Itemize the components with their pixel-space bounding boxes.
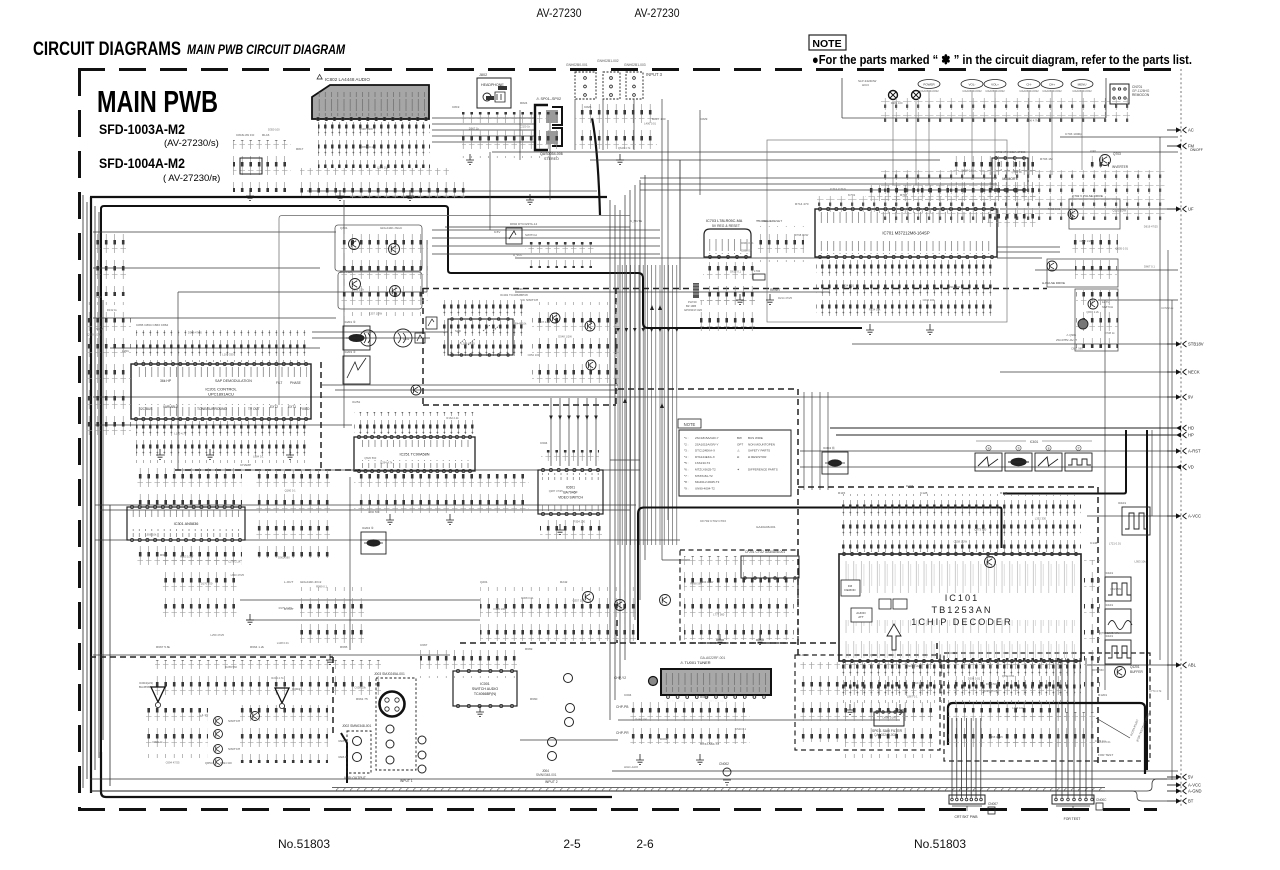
- svg-text:R1201: R1201: [1098, 693, 1107, 697]
- small signal box IC204 pin5: [361, 526, 386, 554]
- svg-text:Q703: Q703: [1113, 152, 1121, 156]
- svg-text:Q601: Q601: [986, 555, 994, 559]
- tuner below parts: [630, 702, 750, 744]
- ground: [556, 524, 564, 534]
- svg-text:D818 0.01: D818 0.01: [962, 169, 975, 173]
- wire IC701 to IC101 bus verticals: [616, 265, 678, 545]
- svg-text:R979 560: R979 560: [1092, 668, 1104, 672]
- ground: [866, 324, 874, 334]
- svg-text:C623 560: C623 560: [1110, 587, 1122, 591]
- svg-text:RL16: RL16: [262, 133, 270, 137]
- svg-text:S-IF: S-IF: [96, 295, 102, 299]
- mid left parts column: [255, 470, 331, 558]
- sel wire drops into IC601: [549, 398, 598, 466]
- svg-text:C667: C667: [420, 643, 428, 647]
- svg-text:A_MUTE: A_MUTE: [630, 219, 642, 223]
- svg-text:L439 10k: L439 10k: [1012, 706, 1024, 710]
- svg-text:GA-A022RF-001: GA-A022RF-001: [700, 656, 725, 660]
- buffer transistor Q302: [350, 279, 361, 290]
- ground: [446, 514, 454, 524]
- svg-text:Q011: Q011: [870, 653, 878, 657]
- svg-text:*7 :: *7 :: [684, 474, 689, 478]
- input1 jacks J011: [386, 725, 426, 783]
- ground: [466, 154, 474, 164]
- section bold dashed video boundary: [423, 288, 1047, 405]
- wire thick top center drop: [592, 118, 600, 215]
- IC101 internal hollow arrow: [887, 624, 901, 650]
- svg-text:L953 10k: L953 10k: [1135, 559, 1147, 563]
- pulse drive parts upper: [1070, 230, 1118, 256]
- svg-text:R553 1/2W: R553 1/2W: [180, 555, 194, 559]
- amp transistor Q202: [615, 600, 626, 611]
- svg-text:C128: C128: [920, 491, 928, 495]
- svg-text:R798 1/2W: R798 1/2W: [795, 233, 809, 237]
- svg-text:ABL: ABL: [1188, 663, 1197, 668]
- ground: [286, 449, 294, 459]
- svg-text:Q649 4.7k: Q649 4.7k: [618, 146, 631, 150]
- svg-text:D901 2.2k: D901 2.2k: [907, 664, 920, 668]
- regulator output capacitors: [700, 300, 756, 334]
- audio power IC IC802 LA4448: [312, 85, 429, 121]
- waveform box IC601 pin11: [1035, 453, 1062, 471]
- svg-text:BT: BT: [1188, 799, 1194, 804]
- svg-text:C004: C004: [624, 693, 632, 697]
- svg-text:VOL-: VOL-: [968, 83, 975, 87]
- svg-text:D308 0.01: D308 0.01: [521, 596, 534, 600]
- section dashed box bottom audio boundary: [90, 620, 937, 735]
- svg-text:R669: R669: [525, 647, 533, 651]
- svg-text:L443 4.7k: L443 4.7k: [1107, 631, 1119, 635]
- svg-text:C862 1/2W: C862 1/2W: [1080, 239, 1094, 243]
- svg-text:IC203 ③: IC203 ③: [344, 350, 356, 354]
- tuner IF input parts: [85, 302, 131, 438]
- svg-text:BUFFER: BUFFER: [340, 270, 353, 274]
- svg-text:C703 1000p: C703 1000p: [1065, 132, 1082, 136]
- svg-text:Q201: Q201: [480, 580, 488, 584]
- svg-text:⚠: ⚠: [737, 449, 740, 453]
- svg-text:DTC124EKA-X: DTC124EKA-X: [695, 449, 715, 453]
- svg-text:L400 0.01: L400 0.01: [644, 122, 656, 126]
- waveform box IC601 pin9: [1005, 453, 1032, 471]
- svg-text:IC004⁄: IC004⁄: [292, 687, 301, 691]
- svg-text:IC304 ⑭: IC304 ⑭: [823, 445, 835, 450]
- svg-text:C919 0.1: C919 0.1: [912, 681, 923, 685]
- svg-text:A_VCC: A_VCC: [513, 253, 522, 257]
- svg-text:UPC1891ACU: UPC1891ACU: [208, 392, 234, 397]
- svg-text:⑰: ⑰: [1077, 446, 1080, 450]
- headphone circuit parts: [462, 112, 558, 158]
- NOTE box: [809, 35, 846, 50]
- inductor L702: [753, 269, 765, 280]
- parts below IC601: [540, 516, 602, 542]
- svg-text:R665: R665: [340, 645, 348, 649]
- svg-text:C107 4.7k: C107 4.7k: [538, 320, 551, 324]
- ground: [716, 634, 724, 644]
- svg-text:VIDEO SWITCH: VIDEO SWITCH: [558, 496, 583, 500]
- section box H pulse drive: [1047, 259, 1118, 287]
- svg-text:Q458 47/25: Q458 47/25: [989, 735, 1004, 739]
- bundle up arrows near regulator: [650, 305, 662, 310]
- svg-text:Ω RESISTOR: Ω RESISTOR: [748, 455, 767, 459]
- svg-text:Q773 330: Q773 330: [974, 528, 986, 532]
- svg-text:D145 10k: D145 10k: [494, 607, 506, 611]
- GDL cluster parts: [300, 587, 366, 643]
- svg-text:CRT SKT PWB: CRT SKT PWB: [955, 815, 979, 819]
- microcomputer section outline: [767, 140, 1007, 322]
- svg-text:L702: L702: [754, 269, 761, 273]
- svg-text:IC401 TC4052BP/W: IC401 TC4052BP/W: [500, 293, 528, 297]
- svg-text:VARI OUTPUT: VARI OUTPUT: [344, 776, 366, 780]
- buffer transistor Q1201: [1115, 667, 1126, 678]
- remocon connector CN701: [1110, 84, 1150, 104]
- svg-text:D846 1k: D846 1k: [153, 740, 164, 744]
- svg-text:TB1253AN: TB1253AN: [932, 605, 993, 615]
- svg-text:POWER: POWER: [923, 83, 935, 87]
- ground: [526, 194, 534, 204]
- svg-text:R242: R242: [560, 580, 568, 584]
- svg-text:L352 330: L352 330: [1035, 517, 1047, 521]
- legend note box: [678, 419, 791, 496]
- regulator caps C716-C719: [703, 262, 755, 310]
- svg-text:D104: D104: [906, 484, 914, 488]
- svg-text:HP: HP: [1188, 433, 1194, 438]
- ground: [246, 190, 254, 200]
- svg-text:R663: R663: [160, 553, 168, 557]
- video output jacks J002: [338, 724, 371, 780]
- svg-text:⑯: ⑯: [1047, 446, 1050, 450]
- switch transistor Q901: [1078, 319, 1088, 329]
- buffer cluster left parts: [340, 234, 428, 316]
- svg-text:CN007: CN007: [988, 802, 998, 806]
- svg-text:L956 10k: L956 10k: [145, 533, 157, 537]
- jack CN002 ground lug: [719, 762, 731, 785]
- svg-text:Y/C SWITCH: Y/C SWITCH: [520, 298, 538, 302]
- svg-text:NOTE: NOTE: [812, 38, 841, 50]
- svg-text:Q357 10k: Q357 10k: [573, 599, 585, 603]
- svg-text:GSA0619-0032: GSA0619-0032: [962, 89, 982, 93]
- wire top mid drops: [490, 99, 700, 560]
- svg-text:UF: UF: [1188, 207, 1194, 212]
- wire audio to speaker bundle: [432, 118, 830, 292]
- svg-text:INPUT 1: INPUT 1: [400, 779, 413, 783]
- svg-text:VARI-R: VARI-R: [338, 755, 347, 759]
- svg-text:IC701 M37212M8-164SP: IC701 M37212M8-164SP: [882, 231, 929, 236]
- scattered reference designator labels: [96, 101, 1113, 769]
- svg-text:R132 1k: R132 1k: [107, 308, 118, 312]
- capacitor row above IC201: [136, 330, 310, 362]
- svg-text:D548 1/2W: D548 1/2W: [558, 335, 572, 339]
- svg-text:K701: K701: [848, 193, 856, 197]
- svg-text:R827 100: R827 100: [652, 117, 666, 121]
- ground: [246, 614, 254, 624]
- svg-text:C694 47/25: C694 47/25: [166, 760, 180, 764]
- svg-text:D898 1/2W: D898 1/2W: [883, 715, 897, 719]
- svg-text:NECK: NECK: [1188, 370, 1200, 375]
- svg-text:AV-27230: AV-27230: [537, 8, 582, 20]
- svg-text:R115: R115: [838, 491, 845, 495]
- svg-text:Q505 0.01: Q505 0.01: [1115, 246, 1128, 250]
- svg-text:TV OUT: TV OUT: [248, 407, 260, 411]
- parts above IC601: [541, 450, 599, 464]
- IC101 internal AUDIO ATT block: [851, 608, 872, 622]
- svg-text:D265 560: D265 560: [225, 665, 237, 669]
- power LED D701: [889, 91, 898, 100]
- svg-text:D880 0.1: D880 0.1: [741, 249, 752, 253]
- svg-text:CF702 C702 C703: CF702 C702 C703: [700, 519, 726, 523]
- section dashed box audio left boundary: [175, 362, 360, 470]
- svg-text:D309 0.01: D309 0.01: [968, 677, 981, 681]
- amp transistor Q203: [660, 595, 671, 606]
- svg-text:D667 0.1: D667 0.1: [1144, 264, 1155, 268]
- svg-text:R717: R717: [900, 193, 908, 197]
- svg-text:SFD-1004A-M2: SFD-1004A-M2: [99, 156, 185, 171]
- svg-text:D619 47/25: D619 47/25: [1144, 225, 1158, 229]
- svg-text:BUFFER: BUFFER: [1130, 670, 1143, 674]
- svg-text:INPUT 3: INPUT 3: [646, 72, 663, 77]
- regulator IC703: [704, 219, 751, 259]
- svg-text:Th: REG &: Th: REG &: [757, 219, 773, 223]
- svg-text:R142: R142: [1000, 491, 1008, 495]
- svg-text:R817: R817: [296, 147, 304, 151]
- buffer transistor Q271: [550, 313, 560, 323]
- svg-text:L100 330: L100 330: [222, 353, 234, 357]
- svg-text:GDL244K-ISGC: GDL244K-ISGC: [380, 226, 403, 230]
- extra micro labels texture: [87, 101, 1174, 765]
- switch area parts left: [146, 708, 208, 758]
- IC701 top stubs: [817, 196, 995, 212]
- svg-text:L777 560: L777 560: [713, 612, 725, 616]
- speaker connector SP01 SP02: [535, 97, 563, 161]
- waveform box IC101 pin49: [1105, 577, 1131, 601]
- detector coil T201: [394, 329, 412, 347]
- svg-text:D402: D402: [403, 337, 410, 341]
- svg-text:L690 560: L690 560: [368, 510, 380, 514]
- wire misc middle horizontals: [93, 247, 1060, 740]
- IC101 lower forest second: [845, 710, 933, 758]
- memory IC702: [992, 150, 1028, 191]
- svg-text:TC4066BF(N): TC4066BF(N): [474, 692, 496, 696]
- section dashed box bottom right: [944, 653, 1150, 761]
- svg-text:*5 :: *5 :: [684, 461, 689, 465]
- svg-text:MTZ/6.8A-T2: MTZ/6.8A-T2: [695, 474, 713, 478]
- bus up arrowheads: [623, 398, 664, 408]
- svg-text:OPT: OPT: [737, 442, 743, 446]
- svg-text:GSA0619-0032: GSA0619-0032: [919, 89, 939, 93]
- svg-text:HD: HD: [1188, 426, 1194, 431]
- key network parts: [865, 185, 950, 213]
- svg-text:C658 10k: C658 10k: [354, 686, 366, 690]
- parts below IC251: [354, 474, 474, 518]
- svg-text:D350 100: D350 100: [268, 128, 280, 132]
- waveform box IC101 pin63: [1122, 507, 1150, 535]
- svg-text:MENU: MENU: [1078, 83, 1087, 87]
- S-video jack J003: [374, 672, 416, 770]
- waveform box labels brace: [976, 440, 1092, 451]
- waveform box IC101 pin50: [1105, 609, 1132, 633]
- svg-text:SWITCH: SWITCH: [228, 719, 240, 723]
- svg-text:DIFFERENCE PARTS: DIFFERENCE PARTS: [748, 468, 778, 472]
- svg-text:Q287 47/25: Q287 47/25: [549, 489, 564, 493]
- switch transistor Q655: [214, 758, 223, 767]
- svg-text:C146: C146: [1090, 541, 1098, 545]
- svg-text:L2.7v: L2.7v: [1102, 300, 1109, 304]
- svg-text:GSA0619-0032: GSA0619-0032: [1042, 89, 1062, 93]
- amp transistor Q201: [583, 592, 594, 603]
- power key switch parts row: [880, 170, 1165, 220]
- svg-text:L165 2.2k: L165 2.2k: [352, 287, 364, 291]
- section box Q902 switch: [1075, 289, 1118, 351]
- svg-text:CN00C: CN00C: [1096, 798, 1107, 802]
- svg-text:CF201 CTO2 GA40A08-001: CF201 CTO2 GA40A08-001: [745, 550, 785, 554]
- ground: [846, 704, 854, 714]
- svg-text:ON/OFF: ON/OFF: [1190, 148, 1203, 152]
- wire CRT socket verticals: [952, 718, 981, 798]
- svg-text:5V REG & RESET: 5V REG & RESET: [712, 224, 740, 228]
- video switch IC601 BA7046F: [538, 468, 603, 515]
- svg-text:R667 5.6k: R667 5.6k: [156, 645, 171, 649]
- ground: [756, 634, 764, 644]
- svg-text:GNH02B1-003: GNH02B1-003: [624, 63, 646, 67]
- thin section loop video area: [279, 216, 630, 406]
- switch transistor Q653: [214, 730, 223, 739]
- svg-text:5V: 5V: [1188, 775, 1193, 780]
- bottom right cluster parts: [948, 658, 1066, 754]
- svg-text:*1 :: *1 :: [684, 436, 689, 440]
- component row below IC201: [136, 421, 310, 463]
- svg-text:VARI-L: VARI-L: [338, 739, 347, 743]
- svg-text:MTZ/J-5625-T2: MTZ/J-5625-T2: [695, 468, 716, 472]
- resistor group left of audio IC: [233, 140, 291, 192]
- svg-text:D181 100: D181 100: [891, 101, 903, 105]
- svg-text:BA4558F: BA4558F: [139, 685, 152, 689]
- svg-text:2-6: 2-6: [636, 837, 654, 851]
- waveform box IC101 pin52: [1105, 640, 1131, 664]
- svg-text:R175 1/2W: R175 1/2W: [279, 606, 293, 610]
- amp transistor Q601: [985, 557, 996, 568]
- wire thick audio feed: [90, 197, 635, 797]
- CF saw filter parts: [684, 556, 794, 640]
- svg-text:C711 C710: C711 C710: [830, 187, 846, 191]
- svg-text:D902 560: D902 560: [278, 556, 290, 560]
- svg-text:L108 0.01: L108 0.01: [277, 641, 289, 645]
- svg-text:L357 1/2W: L357 1/2W: [369, 312, 382, 316]
- ground: [336, 190, 344, 200]
- svg-text:R703 1M: R703 1M: [1040, 157, 1053, 161]
- svg-text:SWITCH AUDIO: SWITCH AUDIO: [472, 687, 499, 691]
- svg-text:J002 SMN0348-001: J002 SMN0348-001: [342, 724, 371, 728]
- svg-text:BA7046F: BA7046F: [563, 491, 577, 495]
- svg-text:R891 47/25: R891 47/25: [983, 689, 997, 693]
- svg-text:1CHIP DECODER: 1CHIP DECODER: [911, 617, 1012, 627]
- svg-text:D967 1k: D967 1k: [469, 127, 480, 131]
- svg-text:HIC3: HIC3: [862, 83, 869, 87]
- svg-text:+1.1V: +1.1V: [200, 713, 209, 717]
- svg-text:*9 :: *9 :: [684, 486, 689, 490]
- svg-text:C124 0.01: C124 0.01: [1098, 740, 1111, 744]
- IC101 internal FF PROC blocks: [879, 599, 907, 609]
- svg-text:CHP-Y2: CHP-Y2: [614, 676, 626, 680]
- svg-text:Q294 4.7k: Q294 4.7k: [380, 461, 393, 465]
- svg-text:BUS WIRE: BUS WIRE: [748, 436, 763, 440]
- svg-text:*8 :: *8 :: [684, 480, 689, 484]
- svg-text:RESET: RESET: [770, 288, 781, 292]
- svg-text:C826: C826: [584, 105, 592, 109]
- capacitor resistor group audio IC under: [318, 122, 430, 168]
- svg-text:R446 10k: R446 10k: [515, 322, 527, 326]
- svg-text:SIF2: SIF2: [96, 327, 103, 331]
- test connector CN00C: [1052, 795, 1107, 821]
- svg-text:R877 0.1: R877 0.1: [362, 145, 373, 149]
- mid bottom cluster parts: [480, 587, 636, 641]
- svg-text:REMOCON: REMOCON: [1132, 93, 1150, 97]
- svg-text:Q520 560: Q520 560: [364, 456, 376, 460]
- switch transistor Q654: [214, 745, 223, 754]
- svg-text:⚠ TU001 TUNER: ⚠ TU001 TUNER: [680, 660, 711, 665]
- ic703 side parts: [756, 226, 804, 262]
- key switch section frame: [842, 78, 1106, 118]
- svg-text:R999 0.1: R999 0.1: [316, 585, 327, 589]
- svg-text:L721 0.01: L721 0.01: [1109, 541, 1121, 545]
- svg-text:A-RST: A-RST: [1188, 449, 1201, 454]
- svg-text:A-GND: A-GND: [1188, 789, 1202, 794]
- svg-text:C774 4.7k: C774 4.7k: [1149, 689, 1162, 693]
- svg-text:CH+: CH+: [1049, 83, 1055, 87]
- svideo area parts: [420, 650, 520, 678]
- remocon circuit parts: [985, 170, 1037, 228]
- svg-text:MGF0LV-R025-T3: MGF0LV-R025-T3: [695, 480, 720, 484]
- svg-text:VARIABLE: VARIABLE: [163, 405, 178, 409]
- IC101 upper forest: [839, 494, 1081, 552]
- svg-text:L012: L012: [800, 653, 807, 657]
- svg-text:No.51803: No.51803: [278, 837, 330, 851]
- svg-text:FOR TEST: FOR TEST: [1098, 753, 1113, 757]
- svg-text:R714 470: R714 470: [795, 202, 809, 206]
- svg-text:CHP-PB: CHP-PB: [616, 705, 629, 709]
- svg-text:C320 1k: C320 1k: [520, 124, 531, 128]
- IC101 internal FM DEMOD block: [841, 580, 860, 596]
- svg-text:SWITCH: SWITCH: [525, 233, 537, 237]
- svg-text:ATT: ATT: [858, 615, 864, 619]
- svg-text:CHAMP: CHAMP: [240, 463, 251, 467]
- svg-text:IC101: IC101: [945, 593, 980, 603]
- svg-text:IC251 TC90A58N: IC251 TC90A58N: [400, 453, 430, 457]
- svg-text:Q160 0.1: Q160 0.1: [285, 489, 297, 493]
- svg-text:2SA1015A/GR/-Y: 2SA1015A/GR/-Y: [695, 442, 719, 446]
- svg-text:R664 1.2k: R664 1.2k: [250, 645, 265, 649]
- svg-text:9-5V: 9-5V: [494, 230, 500, 234]
- connector J403 GNH02B1-003: [624, 63, 646, 99]
- svg-text:IC601: IC601: [566, 485, 575, 489]
- svg-text:L189 330: L189 330: [243, 133, 255, 137]
- ground: [156, 449, 164, 459]
- svg-text:R824: R824: [520, 101, 528, 105]
- sif discriminator coil T202: [360, 330, 376, 346]
- buffer transistor mid parts: [532, 302, 620, 390]
- SAP decoder IC201 UPC1891ACU: [131, 362, 311, 420]
- svg-text:VOL+: VOL+: [991, 83, 999, 87]
- waveform box side labels: [1105, 501, 1126, 638]
- svg-text:C819: C819: [452, 105, 460, 109]
- svg-text:L867 0.1: L867 0.1: [907, 695, 918, 699]
- audio op amp IC004 half B: [275, 687, 301, 709]
- svg-text:R494 330: R494 330: [220, 761, 232, 765]
- ground: [406, 190, 414, 200]
- CRT socket connector CN007: [949, 795, 998, 819]
- switch resistor networks: [240, 705, 328, 763]
- sheet border dashed top: [78, 68, 1176, 71]
- wire FOR TEST verticals: [1056, 658, 1092, 798]
- svg-text:L-OUT: L-OUT: [284, 580, 293, 584]
